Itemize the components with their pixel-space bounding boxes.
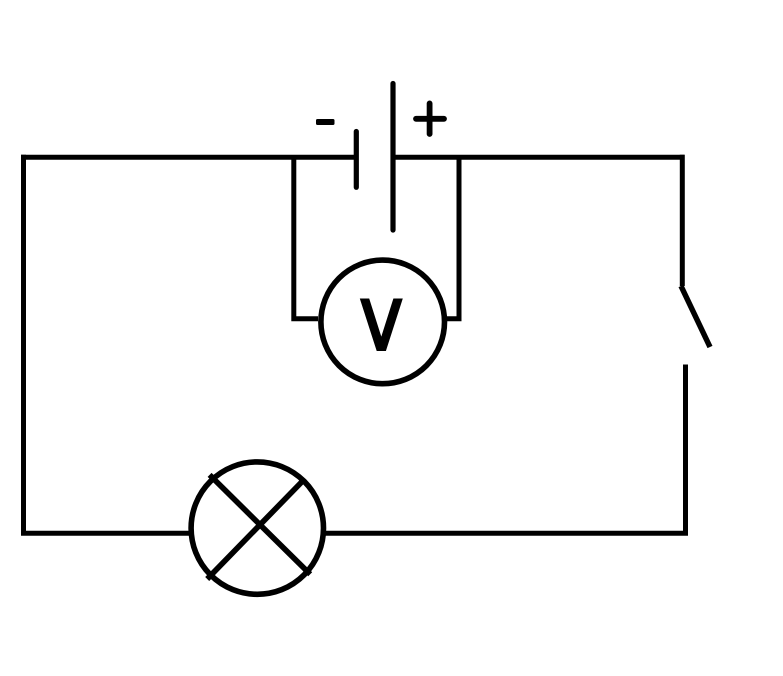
wire voltmeter right drop	[444, 157, 459, 319]
battery B1 positive plate (long)	[390, 84, 395, 231]
switch S1 lever	[681, 286, 710, 347]
lamp L1 circle	[191, 462, 323, 594]
wire bottom right of lamp	[324, 531, 688, 536]
voltmeter V1 circle	[321, 260, 445, 384]
wire bottom left of lamp	[21, 531, 190, 536]
lamp L1 cross stroke A	[210, 475, 311, 574]
label minus sign	[316, 119, 335, 125]
wire top-right horizontal	[391, 155, 685, 160]
wire left vertical	[21, 155, 26, 536]
wire voltmeter left drop	[294, 157, 318, 319]
wire top-left horizontal	[21, 155, 356, 160]
wire right vertical lower	[683, 365, 688, 536]
wire right vertical upper	[680, 155, 685, 286]
battery B1 negative plate (short)	[354, 132, 359, 188]
label plus sign	[416, 103, 444, 134]
lamp L1 cross stroke B	[207, 480, 304, 579]
voltmeter V1 label V	[360, 299, 403, 352]
